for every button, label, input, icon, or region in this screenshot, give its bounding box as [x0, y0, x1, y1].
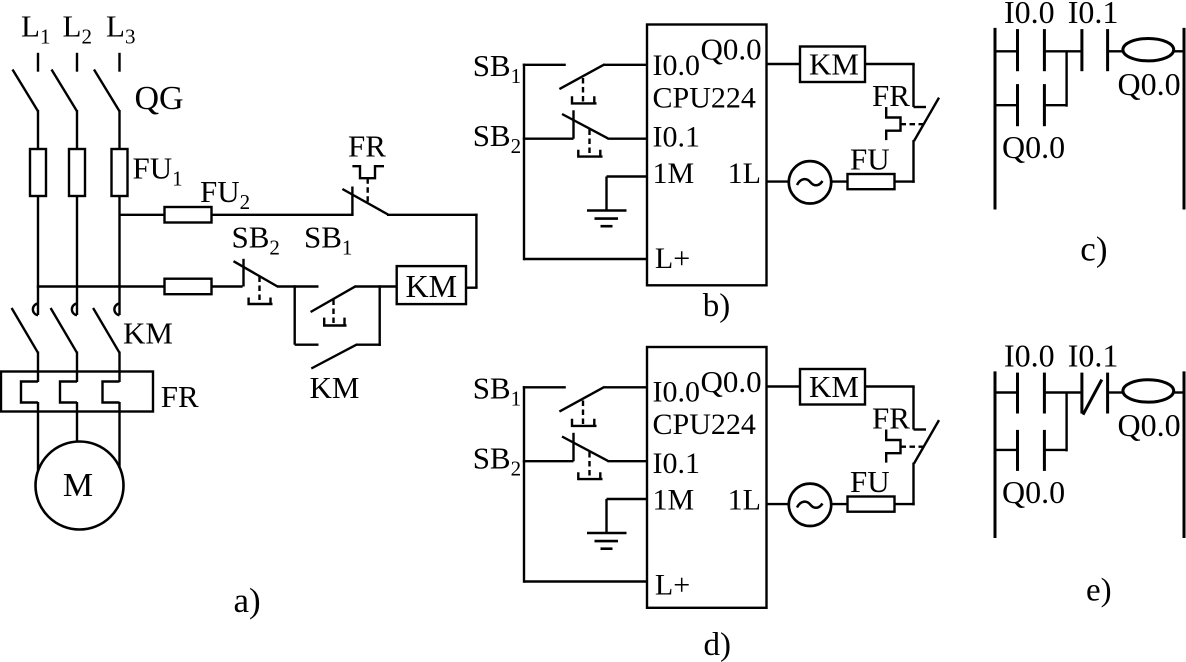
wire L3 FR-to-motor	[118, 402, 120, 468]
wire branch left e	[995, 449, 1018, 451]
svg-text:L3: L3	[106, 9, 135, 49]
AC source tilde d	[797, 502, 823, 508]
fuse FU1 pole 1	[30, 149, 46, 196]
contact FR blade	[342, 189, 388, 215]
button SB1 dashed actuator d	[582, 401, 584, 425]
contact FR fixed tick d	[914, 428, 927, 430]
svg-text:L2: L2	[63, 9, 92, 49]
coil Q0.0 ellipse e	[1123, 380, 1174, 402]
contact I0.0 bars c	[1016, 29, 1019, 71]
button SB2 blade d	[562, 437, 608, 461]
button SB1 blade b	[559, 64, 604, 89]
coil KM box b	[800, 47, 865, 83]
svg-text:Q0.0: Q0.0	[1002, 474, 1065, 510]
contact KM main 1 arc	[33, 304, 38, 316]
wire branch right e	[1044, 449, 1066, 451]
svg-text:b): b)	[703, 288, 731, 324]
svg-text:SB2: SB2	[232, 220, 280, 260]
heater FR element 3	[103, 382, 120, 403]
wire L2 lead	[76, 53, 78, 72]
ladder left rail e	[994, 371, 997, 538]
svg-text:FR: FR	[872, 78, 910, 113]
wire 1M b	[607, 175, 649, 177]
AC source tilde b	[797, 179, 823, 185]
svg-text:c): c)	[1080, 230, 1107, 269]
wire SB2 to I0.1 d	[608, 460, 649, 462]
svg-text:KM: KM	[809, 47, 859, 82]
wire L3 QG-to-FU1	[118, 110, 120, 149]
wire L3 lead	[118, 53, 120, 72]
coil KM box	[397, 266, 466, 304]
button SB2 blade b	[562, 114, 608, 138]
contact Q0.0 bars c	[1016, 84, 1019, 126]
wire L2 FU1-to-KM	[76, 196, 78, 315]
svg-text:FU: FU	[850, 141, 890, 176]
svg-text:I0.0: I0.0	[653, 375, 701, 408]
fuse FU b	[848, 174, 895, 189]
wire ground riser d	[605, 499, 607, 533]
wire KM aux left	[295, 344, 319, 346]
svg-text:I0.0: I0.0	[653, 49, 701, 82]
button SB2 cap b	[578, 150, 602, 157]
button SB1 cap	[324, 318, 346, 326]
coil KM box d	[800, 369, 865, 405]
svg-text:I0.1: I0.1	[1068, 0, 1119, 30]
wire L1 KM-to-FR	[37, 352, 39, 383]
wire L1 FR-to-motor	[37, 402, 39, 471]
svg-text:Q0.0: Q0.0	[701, 31, 762, 66]
wire KM aux right	[356, 344, 381, 346]
wire L+ d	[524, 580, 648, 582]
wire rung left c	[995, 50, 1018, 52]
svg-text:Q0.0: Q0.0	[701, 364, 762, 399]
button SB2 dashed actuator d	[588, 452, 590, 478]
wire branch right c	[1044, 104, 1066, 106]
wire Q0.0 to KM b	[767, 63, 801, 65]
wire L2 KM-to-FR	[76, 352, 78, 383]
heater FR element 1	[21, 382, 38, 403]
contact I0.1 NC slash e	[1083, 380, 1102, 415]
wire FU2 to FR contact	[212, 214, 354, 216]
contact FR blade b	[914, 98, 939, 141]
svg-text:Q0.0: Q0.0	[1002, 129, 1065, 165]
svg-text:L1: L1	[21, 9, 50, 49]
svg-text:I0.1: I0.1	[1068, 338, 1119, 374]
wire L2 FR-to-motor	[76, 402, 78, 443]
button SB1 cap d	[572, 419, 597, 426]
thermal element FR dashed link b	[901, 123, 925, 125]
svg-text:KM: KM	[310, 370, 360, 405]
svg-text:M: M	[63, 467, 93, 504]
fuse FU2	[165, 207, 212, 223]
svg-text:SB1: SB1	[473, 371, 521, 411]
switch QG pole 3 blade	[94, 70, 120, 112]
AC source circle d	[789, 484, 831, 526]
svg-text:SB1: SB1	[304, 220, 352, 260]
button SB2 fixed tick d	[572, 433, 574, 461]
wire L1 FU1-to-KM	[37, 196, 39, 315]
svg-text:FU1: FU1	[133, 151, 183, 191]
button SB1 dashed actuator b	[582, 78, 584, 102]
thermal element FR dashed link	[367, 178, 369, 203]
contact I0.1 bars c	[1080, 29, 1083, 71]
thermal element FR bracket	[352, 166, 384, 178]
wire rung to coil e	[1108, 391, 1123, 393]
svg-text:I0.0: I0.0	[1004, 338, 1055, 374]
PLC CPU224 box d	[647, 347, 767, 608]
wire FU to FR b	[895, 180, 915, 182]
button SB2 cap	[249, 298, 273, 305]
svg-text:FR: FR	[872, 401, 910, 436]
ground symbol d	[587, 532, 627, 535]
wire fuse to SB2	[212, 285, 243, 287]
wire SB1 left b	[523, 64, 566, 66]
wire FU to FR d	[895, 503, 915, 505]
button SB2 dashed actuator b	[588, 130, 590, 156]
svg-text:a): a)	[234, 581, 261, 620]
node junction right parallel	[379, 285, 381, 346]
svg-text:Q0.0: Q0.0	[1118, 66, 1181, 102]
svg-text:L+: L+	[655, 242, 690, 275]
fuse FU1 pole 3	[112, 149, 128, 196]
wire L1 QG-to-FU1	[37, 110, 39, 149]
wire coil to right rail c	[1174, 50, 1184, 52]
wire branch junction riser e	[1065, 393, 1067, 452]
button SB2 cap d	[578, 472, 602, 479]
svg-text:CPU224: CPU224	[653, 82, 756, 115]
wire KM to FR contact b	[865, 63, 915, 65]
svg-text:KM: KM	[123, 316, 173, 351]
wire control branch top from L3	[120, 214, 165, 216]
wire ground riser b	[605, 177, 607, 211]
wire FR upper d	[912, 387, 914, 430]
thermal element FR bracket b	[886, 107, 900, 140]
fuse FU d	[848, 497, 895, 512]
wire SB2 to I0.1 b	[608, 137, 649, 139]
contact FR blade d	[914, 420, 939, 463]
contact KM main 1 blade	[12, 308, 38, 353]
thermal element FR bracket d	[886, 430, 900, 463]
ladder right rail e	[1183, 371, 1186, 538]
wire rung to coil c	[1108, 50, 1123, 52]
heater FR element 2	[60, 382, 77, 403]
svg-text:I0.0: I0.0	[1004, 0, 1055, 30]
svg-text:1L: 1L	[728, 157, 761, 190]
svg-text:FR: FR	[348, 129, 386, 164]
svg-text:d): d)	[704, 627, 732, 662]
svg-text:e): e)	[1086, 573, 1112, 609]
wire KM to FR contact d	[865, 385, 915, 387]
ground symbol b	[587, 209, 627, 212]
wire L2 QG-to-FU1	[76, 110, 78, 149]
wire SB2 left b	[523, 137, 574, 139]
coil Q0.0 ellipse c	[1123, 39, 1174, 61]
wire 1M d	[607, 498, 649, 500]
wire branch left c	[995, 104, 1018, 106]
node junction left parallel	[294, 285, 296, 344]
svg-text:KM: KM	[809, 369, 859, 404]
svg-text:FU: FU	[850, 464, 890, 499]
wire control branch bottom from L1	[37, 285, 165, 287]
contact Q0.0 bars e	[1016, 430, 1019, 471]
wire AC to FU d	[830, 503, 848, 505]
wire SB2 to SB1	[277, 285, 319, 287]
svg-text:I0.1: I0.1	[653, 447, 701, 480]
switch QG pole 1 blade	[13, 70, 39, 112]
svg-text:1M: 1M	[653, 157, 695, 190]
AC source circle b	[789, 161, 831, 203]
wire SB1 to I0.0 b	[604, 64, 648, 66]
contact KM main 2 arc	[72, 304, 77, 316]
wire SB1 left d	[523, 386, 566, 388]
svg-text:FU2: FU2	[200, 174, 250, 214]
button SB1 blade d	[559, 387, 604, 412]
wire 1L to AC d	[767, 503, 791, 505]
svg-text:SB2: SB2	[473, 118, 521, 158]
button SB2 fixed terminal tick	[242, 259, 244, 287]
wire L+ b	[524, 258, 648, 260]
wire FR lower d	[912, 463, 914, 506]
button SB1 blade	[311, 286, 356, 312]
wire coil to right rail e	[1174, 391, 1184, 393]
button SB1 dashed actuator	[332, 300, 334, 325]
wire AC to FU b	[830, 180, 848, 182]
svg-text:FR: FR	[161, 379, 199, 414]
relay FR box	[1, 372, 153, 412]
ladder left rail c	[994, 28, 997, 210]
wire FR upper b	[912, 64, 914, 107]
contact FR fixed terminal tick	[351, 187, 353, 215]
wire FR lower b	[912, 140, 914, 183]
wire left rail L+ b	[523, 64, 525, 261]
svg-text:1L: 1L	[728, 484, 761, 517]
wire SB1 to KM coil	[355, 285, 397, 287]
wire rung middle e	[1044, 391, 1082, 393]
contact KM main 3 arc	[114, 304, 119, 316]
wire FR to right rail	[387, 214, 478, 216]
fuse FU3 control	[165, 279, 212, 295]
wire L3 FU1-to-KM	[118, 196, 120, 315]
PLC CPU224 box b	[647, 25, 767, 286]
contact KM main 2 blade	[51, 308, 77, 353]
contact I0.0 bars e	[1016, 373, 1019, 414]
button SB2 fixed tick b	[572, 110, 574, 138]
wire rung left e	[995, 391, 1018, 393]
wire left rail L+ d	[523, 386, 525, 583]
thermal element FR dashed link d	[901, 446, 925, 448]
svg-text:I0.1: I0.1	[653, 120, 701, 153]
button SB2 blade	[234, 261, 278, 286]
svg-text:SB2: SB2	[473, 441, 521, 481]
svg-text:SB1: SB1	[473, 48, 521, 88]
button SB2 dashed actuator	[258, 277, 260, 303]
wire SB1 to I0.0 d	[604, 386, 648, 388]
wire right rail down to KM coil	[475, 214, 477, 288]
svg-text:1M: 1M	[653, 484, 695, 517]
contact KM aux blade	[311, 344, 357, 368]
wire branch junction riser c	[1065, 51, 1067, 106]
fuse FU1 pole 2	[69, 149, 85, 196]
contact I0.1 bars e	[1080, 373, 1083, 414]
svg-text:L+: L+	[655, 569, 690, 602]
wire KM coil to right rail	[466, 287, 478, 289]
wire L1 lead	[37, 53, 39, 72]
contact FR fixed tick b	[914, 106, 927, 108]
button SB1 cap b	[572, 96, 597, 103]
svg-text:KM: KM	[406, 268, 458, 304]
wire Q0.0 to KM d	[767, 385, 801, 387]
wire L3 KM-to-FR	[118, 352, 120, 383]
wire SB2 left d	[523, 460, 574, 462]
wire 1L to AC b	[767, 180, 791, 182]
switch QG pole 2 blade	[52, 70, 78, 112]
svg-text:QG: QG	[135, 80, 184, 117]
svg-text:CPU224: CPU224	[653, 408, 756, 441]
motor M circle	[36, 442, 124, 530]
ladder right rail c	[1183, 28, 1186, 210]
wire rung middle c	[1044, 50, 1082, 52]
svg-text:Q0.0: Q0.0	[1118, 407, 1181, 443]
contact KM main 3 blade	[93, 308, 119, 353]
